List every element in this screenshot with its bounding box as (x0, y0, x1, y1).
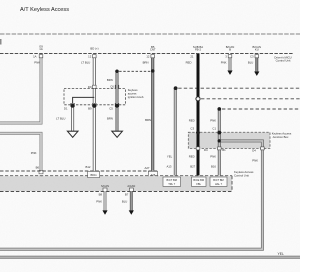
ground G502 (112, 131, 123, 137)
dashed line to keyless control unit (201, 98, 300, 100)
node dot PNK right (218, 107, 222, 111)
node dot PNK right top (218, 107, 222, 111)
wire PNK upper elbow (0, 56, 41, 123)
connector box A25 (148, 171, 157, 177)
node dot YEL (174, 86, 178, 90)
node dot RED junction box (196, 131, 200, 135)
wire YEL (174, 88, 177, 175)
node dot YEL top (174, 86, 178, 90)
connector box BCT BM TRL (163, 177, 181, 186)
wire PNK down (104, 191, 107, 211)
pin box G9 (39, 55, 43, 58)
control unit bottom edge (0, 191, 232, 193)
page arrow PNK (102, 210, 107, 214)
connector box BCT BM HAL (210, 177, 227, 186)
wire PNK lower elbow (0, 133, 41, 170)
module boundary line (top band) (0, 53, 293, 55)
wire BLU down (130, 191, 133, 211)
pin box D4 (261, 147, 265, 150)
junction dot D1 (71, 104, 75, 108)
junction dot B9 (92, 104, 96, 108)
boundary dash-dot line top (0, 33, 300, 35)
control unit top edge right (0, 175, 232, 177)
wire RED main (197, 54, 200, 176)
pin box D6 (39, 170, 43, 178)
pin box B7 (129, 188, 133, 192)
node dot PNK junction box (218, 131, 222, 135)
page arrow BLU stub (254, 72, 259, 76)
dashed line to keyless control unit (222, 108, 300, 110)
keyless ignition knob switch dashed box (64, 89, 126, 105)
connector ring (196, 97, 200, 101)
node dot D1 (71, 104, 75, 108)
node dot BRN branch top (115, 70, 118, 73)
wire BRN main (151, 56, 154, 171)
wire BLU stub (255, 56, 258, 72)
module label: driver's control unit (274, 55, 291, 62)
control unit right edge (231, 176, 233, 192)
dashed line to keyless control unit (178, 87, 300, 89)
switch internal wire (73, 97, 95, 105)
node dot C5 (115, 104, 119, 108)
pin box B8 (103, 188, 107, 192)
node dot tap (218, 139, 221, 142)
page arrow BLU (129, 210, 134, 214)
pin box D1 (71, 103, 75, 106)
dashed splice link (119, 70, 150, 72)
pin box D9 (93, 85, 97, 88)
pin box C6 (115, 85, 119, 88)
ground G501 (67, 131, 78, 137)
wire LT BLU ground branch (71, 106, 74, 131)
pin box B/CAN B (228, 55, 232, 58)
wire BRN ground branch (116, 71, 119, 131)
node dot RED at junction box (196, 131, 200, 135)
pin box C5 (115, 103, 119, 106)
node dot PNK tap (218, 139, 221, 142)
wire PNK routed (0, 141, 262, 249)
pin box PNK exit (218, 147, 222, 150)
connector label B/CAN KU (253, 45, 262, 52)
node dot BRN main top (151, 69, 154, 72)
connector label B5 (150, 45, 156, 52)
control unit top edge left (0, 170, 158, 172)
connector label B/CAN B (226, 45, 235, 52)
left edge tick (0, 39, 2, 45)
node dot BRN main (151, 69, 154, 72)
pin box RED exit (196, 147, 200, 150)
keyless access control unit band fill (0, 176, 232, 191)
control unit label (234, 170, 254, 177)
wire PNK stub (229, 56, 232, 71)
node dot B9 (92, 104, 96, 108)
keyless access junction box (188, 132, 270, 148)
node dot BRN branch (115, 70, 118, 73)
node dot PNK at junction box (218, 131, 222, 135)
wire PNK right (218, 109, 221, 176)
pin box B9 (93, 103, 97, 106)
junction box label (272, 132, 292, 139)
keyless ignition knob label (128, 88, 144, 99)
wire LT BLU main (93, 56, 96, 171)
connector label G9 (39, 44, 43, 51)
pin box B5 (151, 55, 155, 58)
junction dot C5 (115, 104, 119, 108)
pin box B/CAN KU (255, 55, 259, 58)
page arrow PNK stub (227, 71, 232, 75)
wire YEL bottom run (0, 256, 300, 258)
connector label SUB BA FB-2 (193, 45, 203, 51)
pin box BD (93, 55, 97, 58)
connector box BD11 (88, 171, 100, 177)
connector box BCE BM FBL (192, 177, 207, 186)
